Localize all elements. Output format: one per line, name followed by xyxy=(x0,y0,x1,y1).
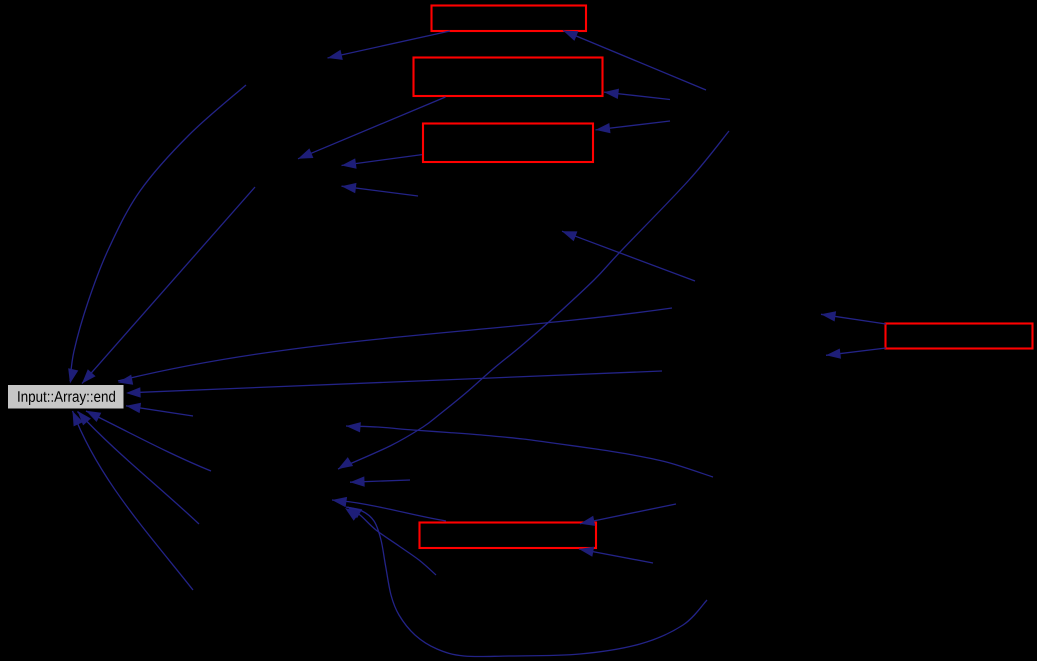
wire edge long diagonal from hub down to hidden node xyxy=(338,131,729,469)
wire edge bottom fan curve 1 into node bottom edge xyxy=(86,411,211,471)
wire edge short from hidden node into node right edge lower xyxy=(126,403,193,416)
wire edge from box C left edge to hidden node xyxy=(342,155,423,169)
node box D (red truncated caller, right side) xyxy=(886,324,1033,349)
wire edge from hidden hub to box B right edge xyxy=(604,89,670,100)
wire edge long flat curve from right into hidden node mid xyxy=(346,422,713,477)
wire edge from hidden node to box E bottom-right corner xyxy=(579,547,653,563)
node box E (red truncated caller, bottom middle) xyxy=(420,523,597,549)
wire edge from box B bottom-left corner to hidden node xyxy=(298,97,446,159)
wire edge bottom fan curve 3 into node bottom edge xyxy=(73,411,194,590)
node box B (red truncated caller, second) xyxy=(414,58,603,97)
wire edge from box D bottom-left corner to hidden node xyxy=(826,348,886,359)
node box A (red truncated caller, top) xyxy=(432,6,587,32)
wire edge big left curve into node top xyxy=(68,85,246,384)
wire edge up-left short diagonal mid-right xyxy=(562,231,695,281)
wire edge from box D top-left corner to hidden node xyxy=(821,311,886,324)
node box C (red truncated caller, third) xyxy=(423,124,593,163)
wire edge straight diagonal into node top xyxy=(82,187,255,384)
node Input::Array::end (current function, grey box) xyxy=(8,385,125,410)
wire edge from box E top-left to hidden cluster node xyxy=(332,497,446,521)
wire edge long shallow curve into node right edge upper xyxy=(126,371,662,398)
wire edge long bottom swoop from hidden node to cluster xyxy=(345,507,707,657)
wire edge bottom fan curve 2 into node bottom edge xyxy=(78,411,200,524)
wire edge long shallow curve into node top-right corner xyxy=(118,308,672,385)
wire edge from hidden hub to box A bottom-right corner xyxy=(563,31,706,91)
wire edge from hidden hub to box C right edge xyxy=(596,121,671,133)
wire edge short into hidden node above cluster xyxy=(350,476,410,486)
wire edge from hidden node corner to hidden node xyxy=(342,183,419,196)
wire edge from hidden node to box E top-right corner xyxy=(580,504,676,526)
wire edge short curve from hidden node up-left to cluster xyxy=(347,507,436,576)
wire edge from box A bottom-left corner to hidden node xyxy=(328,31,451,60)
